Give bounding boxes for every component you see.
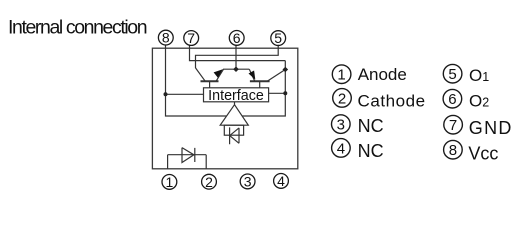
svg-text:3: 3 bbox=[337, 117, 345, 134]
svg-text:8: 8 bbox=[162, 30, 170, 46]
svg-text:4: 4 bbox=[337, 140, 345, 157]
svg-text:6: 6 bbox=[448, 91, 456, 108]
svg-text:Vcc: Vcc bbox=[468, 143, 498, 163]
svg-text:8: 8 bbox=[449, 142, 457, 159]
svg-text:Anode: Anode bbox=[358, 65, 407, 84]
svg-text:Internal connection: Internal connection bbox=[8, 17, 147, 39]
svg-text:2: 2 bbox=[338, 90, 346, 107]
svg-text:5: 5 bbox=[274, 30, 282, 46]
svg-text:6: 6 bbox=[233, 30, 241, 46]
svg-text:O1: O1 bbox=[469, 66, 489, 85]
svg-text:5: 5 bbox=[448, 66, 456, 83]
svg-text:1: 1 bbox=[166, 174, 174, 190]
svg-text:O2: O2 bbox=[469, 91, 489, 110]
svg-text:7: 7 bbox=[449, 117, 457, 134]
svg-text:7: 7 bbox=[187, 30, 195, 46]
svg-text:2: 2 bbox=[205, 174, 213, 190]
svg-text:NC: NC bbox=[358, 141, 384, 161]
svg-text:1: 1 bbox=[337, 67, 345, 84]
svg-text:Cathode: Cathode bbox=[358, 91, 426, 110]
svg-text:3: 3 bbox=[244, 174, 252, 190]
svg-text:GND: GND bbox=[469, 118, 513, 138]
svg-text:NC: NC bbox=[358, 116, 384, 136]
svg-text:4: 4 bbox=[277, 173, 285, 189]
svg-text:Interface: Interface bbox=[208, 88, 264, 104]
